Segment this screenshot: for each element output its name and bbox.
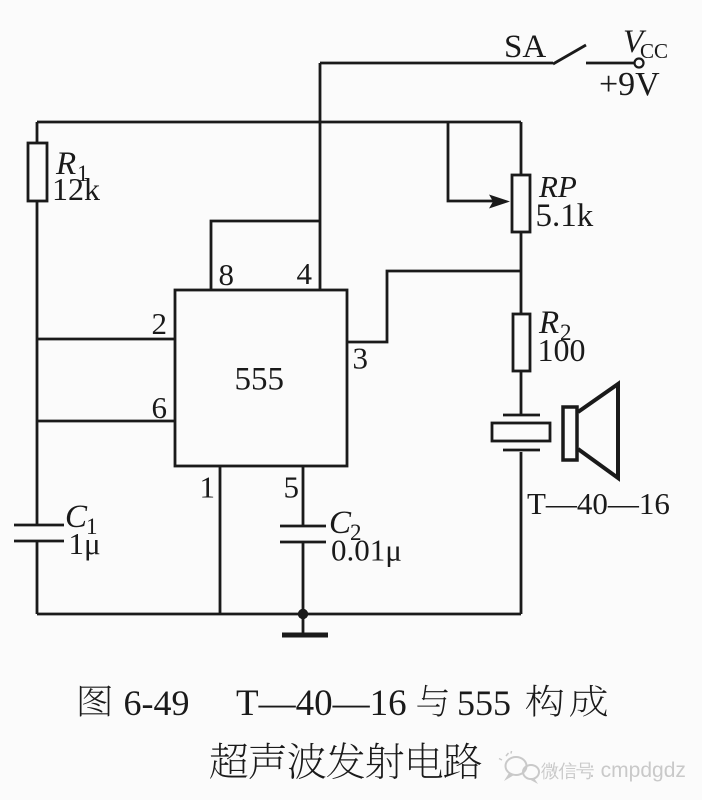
svg-text:1: 1 — [200, 470, 216, 505]
svg-text:SA: SA — [504, 29, 546, 65]
svg-text:T—40—16: T—40—16 — [236, 683, 407, 724]
svg-text:2: 2 — [152, 306, 168, 341]
svg-text:3: 3 — [353, 341, 369, 376]
svg-text:8: 8 — [219, 257, 235, 292]
svg-text:555: 555 — [235, 362, 285, 398]
svg-text:100: 100 — [538, 332, 586, 368]
svg-text:4: 4 — [297, 256, 313, 291]
svg-text:6-49: 6-49 — [124, 683, 190, 723]
svg-text:1μ: 1μ — [69, 526, 101, 561]
svg-text:T—40—16: T—40—16 — [527, 486, 670, 521]
svg-text:: cmpdgdz: : cmpdgdz — [589, 759, 686, 782]
svg-text:0.01μ: 0.01μ — [331, 533, 402, 568]
svg-text:+9V: +9V — [599, 66, 660, 103]
svg-text:5: 5 — [284, 470, 300, 505]
svg-text:CC: CC — [640, 39, 668, 63]
svg-text:6: 6 — [152, 390, 168, 425]
svg-text:555: 555 — [457, 683, 511, 723]
svg-text:12k: 12k — [52, 171, 100, 207]
svg-text:5.1k: 5.1k — [536, 198, 594, 234]
